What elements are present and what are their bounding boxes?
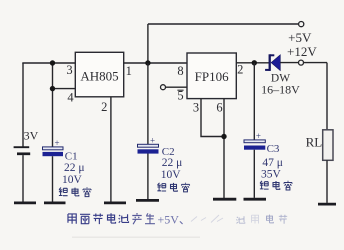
pin 5 label with overbar xyxy=(177,89,183,103)
wire: C3 branch upper xyxy=(253,63,255,140)
svg-text:3: 3 xyxy=(193,100,199,114)
capacitor C2 xyxy=(138,135,159,153)
wire: FP106 pin3 down and over xyxy=(201,99,224,137)
ground (C2) xyxy=(136,199,159,202)
regulator U2 FP106 box xyxy=(187,53,236,99)
battery BT 3V xyxy=(14,147,31,154)
svg-text:FP106: FP106 xyxy=(195,69,229,84)
wire: top +5V rail xyxy=(148,23,299,25)
svg-text:10V: 10V xyxy=(62,174,83,186)
wire: vertical tie bus pin3/pin4 down to C1 xyxy=(52,63,54,147)
ground (battery) xyxy=(14,201,36,204)
svg-text:4: 4 xyxy=(67,91,74,105)
terminal +12V xyxy=(299,60,304,65)
wire: +12V terminal to right rail xyxy=(304,62,327,64)
capacitor C3 xyxy=(244,131,265,150)
node: junction pin1/C2/top rail xyxy=(145,60,150,65)
svg-text:35V: 35V xyxy=(261,169,282,181)
node: junction pin2/C3 xyxy=(252,60,257,65)
wire: pin5 stub xyxy=(166,86,187,88)
label tantalum cap C3 xyxy=(260,181,292,190)
svg-text:1: 1 xyxy=(126,64,132,78)
svg-text:2: 2 xyxy=(101,100,107,114)
node: junction pin4 bus xyxy=(50,86,55,91)
svg-text:2: 2 xyxy=(237,63,243,77)
resistor RL xyxy=(323,130,333,161)
terminal +5V xyxy=(299,22,304,27)
wire: C2 branch upper xyxy=(147,63,149,144)
svg-text:AH805: AH805 xyxy=(80,69,118,84)
svg-text:+12V: +12V xyxy=(287,44,317,59)
wire: pin1 of AH805 to pin8 of FP106 xyxy=(124,62,187,64)
wire: pin4 wire xyxy=(53,88,76,90)
label tantalum cap C1 xyxy=(59,187,91,196)
svg-text:47 μ: 47 μ xyxy=(262,157,283,169)
faint smear under caption xyxy=(72,237,200,238)
svg-text:3V: 3V xyxy=(24,129,39,143)
wire: FP106 pin2 to diode xyxy=(236,62,269,64)
wire: AH805 pin2 to ground xyxy=(110,97,112,203)
node: junction pin3 bus xyxy=(50,60,55,65)
capacitor C1 xyxy=(43,138,64,156)
ground (AH805 pin2) xyxy=(104,201,126,204)
svg-text:RL: RL xyxy=(306,135,323,150)
wire: FP106 pin6 down to ground xyxy=(223,99,225,198)
op-amp U1 AH805 box xyxy=(75,52,123,97)
svg-text:C3: C3 xyxy=(267,143,280,155)
svg-text:22 μ: 22 μ xyxy=(162,157,183,169)
ground (C3) xyxy=(244,198,267,201)
caption: 用两节电池产生 +5V、(+12V...) xyxy=(68,213,155,224)
wire: right rail down to RL xyxy=(326,63,328,130)
wire: C1 lower to ground xyxy=(52,156,54,201)
svg-text:+5V、: +5V、 xyxy=(158,213,191,227)
svg-text:+5V: +5V xyxy=(288,30,312,45)
wire: diode to +12V terminal xyxy=(280,62,298,64)
wire: pin3 wire from left rail to AH805 xyxy=(22,62,75,64)
wire: C2 branch lower to ground xyxy=(147,153,149,200)
svg-text:+: + xyxy=(256,131,261,141)
ground (FP106 pins 3,6) xyxy=(213,198,236,201)
svg-text:C2: C2 xyxy=(162,146,175,158)
caption faint watermark remains xyxy=(191,215,287,224)
node: junction pin3/pin6 xyxy=(221,134,226,139)
wire: vertical from top rail down to pin1 node xyxy=(147,24,149,63)
label tantalum cap C2 xyxy=(157,183,189,192)
svg-text:6: 6 xyxy=(216,100,222,114)
wire: C3 lower to ground xyxy=(253,150,255,198)
terminal pin5 open circle xyxy=(161,85,166,90)
wire: left rail down to battery xyxy=(22,63,24,147)
svg-text:16–18V: 16–18V xyxy=(261,83,300,97)
svg-text:10V: 10V xyxy=(161,169,182,181)
ground (RL) xyxy=(318,203,336,206)
zener diode DW xyxy=(265,54,280,71)
svg-text:22 μ: 22 μ xyxy=(64,162,85,174)
ground (C1) xyxy=(44,201,66,204)
wire: RL to ground xyxy=(326,160,328,203)
svg-text:8: 8 xyxy=(177,64,183,78)
svg-text:C1: C1 xyxy=(65,151,78,163)
wire: battery negative down to ground xyxy=(22,155,24,202)
svg-text:3: 3 xyxy=(66,63,72,77)
